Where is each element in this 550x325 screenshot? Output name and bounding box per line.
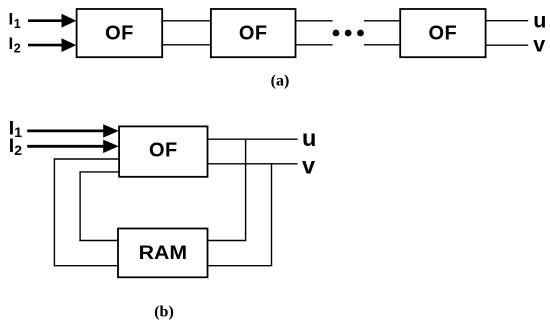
block OF (b) <box>119 126 207 176</box>
wire feedback inner horizontal top <box>79 171 119 173</box>
wire input arrow I1 (b) <box>27 129 105 132</box>
wire branch u-to-RAM horizontal <box>207 240 246 242</box>
wire output u (b) <box>207 138 298 140</box>
svg-text:u: u <box>533 8 546 32</box>
block RAM (b) <box>118 229 208 278</box>
wire output v (a) <box>486 44 529 46</box>
svg-text:2: 2 <box>14 41 21 55</box>
wire dots-OF3 lower <box>364 44 400 46</box>
wire branch u-to-RAM vertical <box>245 139 247 240</box>
svg-text:OF: OF <box>429 22 458 44</box>
wire OF1-OF2 lower <box>162 44 211 46</box>
wire input arrow I1 (a) <box>28 19 65 22</box>
svg-text:v: v <box>302 152 315 178</box>
wire OF1-OF2 upper <box>162 20 211 22</box>
wire output v (b) <box>207 163 298 165</box>
wire feedback inner RAM-to-OF horizontal bottom <box>79 240 118 242</box>
svg-text:OF: OF <box>239 22 268 44</box>
svg-text:I: I <box>9 34 14 53</box>
svg-text:RAM: RAM <box>139 243 188 264</box>
svg-text:I: I <box>9 10 14 29</box>
svg-text:u: u <box>302 125 316 151</box>
wire output u (a) <box>486 20 529 22</box>
wire branch v-to-RAM vertical <box>271 164 273 266</box>
wire feedback outer vertical <box>53 159 55 266</box>
wire input arrow I2 (a) <box>28 44 65 47</box>
wire dots-OF3 upper <box>364 20 400 22</box>
svg-text:OF: OF <box>149 140 178 162</box>
wire feedback inner vertical <box>79 172 81 241</box>
svg-text:(a): (a) <box>271 73 290 90</box>
block OF #2 (a) <box>211 9 296 57</box>
wire OF2-dots lower <box>296 44 333 46</box>
ellipsis dots <box>333 30 340 37</box>
svg-text:(b): (b) <box>154 304 174 321</box>
wire branch v-to-RAM horizontal <box>207 265 272 267</box>
svg-text:v: v <box>533 33 545 57</box>
svg-text:1: 1 <box>14 17 21 31</box>
wire input arrow I2 (b) <box>27 145 105 148</box>
wire feedback outer RAM-to-OF horizontal bottom <box>54 265 118 267</box>
wire feedback outer horizontal top <box>54 158 119 160</box>
block OF #3 (a) <box>400 9 485 57</box>
block OF #1 (a) <box>77 9 163 57</box>
svg-text:I: I <box>9 135 14 157</box>
svg-text:1: 1 <box>14 124 22 140</box>
svg-text:OF: OF <box>105 22 134 44</box>
svg-text:2: 2 <box>14 142 22 158</box>
wire OF2-dots upper <box>296 20 333 22</box>
